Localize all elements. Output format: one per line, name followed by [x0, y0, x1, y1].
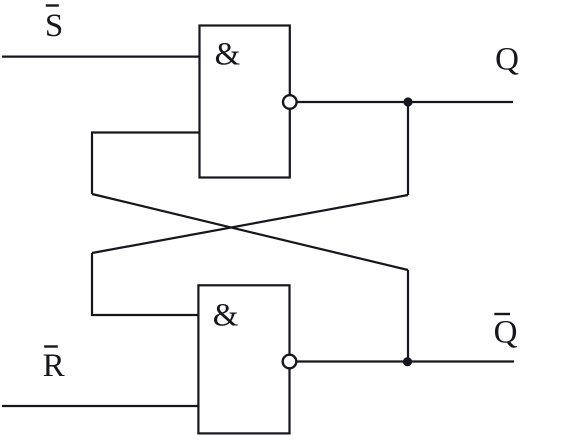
NAND gate U2 inversion bubble — [283, 355, 297, 369]
node label R-bar — [43, 347, 65, 384]
wire: U1 lower input horizontal — [91, 131, 200, 133]
svg-text:S: S — [45, 8, 63, 44]
wire: U2 upper input horizontal — [91, 314, 199, 316]
NAND gate U1 body — [200, 26, 290, 178]
svg-text:&: & — [215, 37, 241, 73]
wire: Q-bar output from U2 bubble — [296, 360, 514, 362]
NAND gate U2 body — [198, 285, 289, 433]
wire: Q output from U1 bubble — [297, 101, 513, 103]
wire: left vertical upper segment — [91, 133, 93, 195]
node label S-bar — [45, 6, 63, 44]
wire: right vertical lower segment to Q-bar junction — [407, 270, 409, 362]
junction node on Q-bar net — [403, 357, 412, 366]
svg-text:Q: Q — [495, 42, 519, 78]
svg-text:R: R — [43, 348, 65, 384]
wire: R-bar input to U2 bottom input — [2, 405, 199, 407]
wire: left vertical lower segment — [91, 253, 93, 316]
svg-text:Q: Q — [494, 314, 518, 350]
NAND gate U1 inversion bubble — [283, 95, 297, 109]
junction node on Q net — [403, 97, 412, 106]
svg-text:&: & — [213, 298, 239, 334]
wire: S-bar input to U1 top input — [2, 55, 200, 57]
wire: diagonal from Q net to left vertical — [92, 195, 408, 253]
wire: diagonal from left vertical to Q-bar net — [92, 194, 408, 270]
wire: right vertical upper segment from Q junction — [407, 102, 409, 195]
node label Q-bar — [494, 314, 518, 350]
